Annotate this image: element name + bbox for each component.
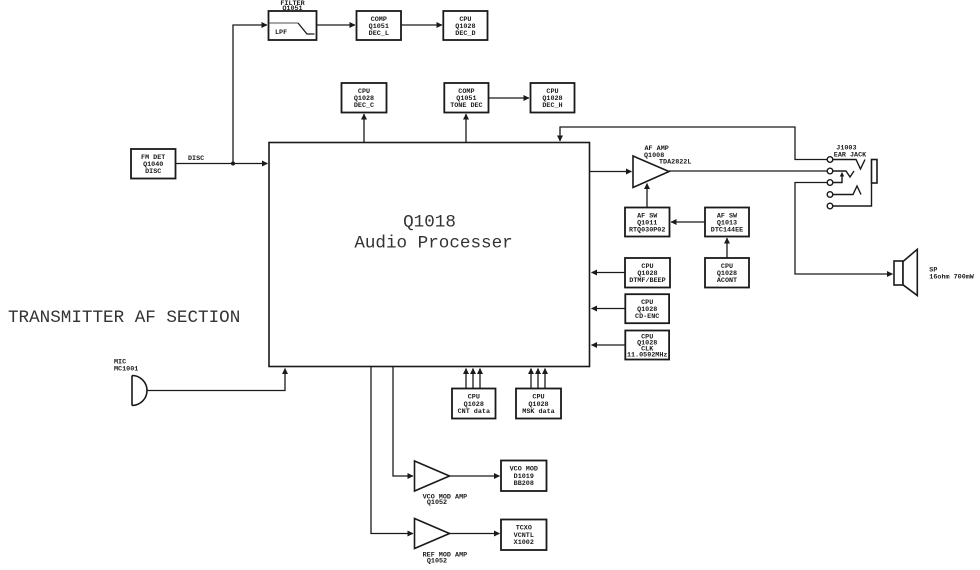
svg-text:DEC_L: DEC_L xyxy=(369,30,389,38)
wire block right to AF AMP input xyxy=(590,171,632,173)
svg-text:Audio Processer: Audio Processer xyxy=(354,234,512,254)
wire AF SW Q1013 to AF SW Q1011 xyxy=(671,221,705,223)
switch AF SW Q1011 RTQ030P02 xyxy=(625,208,670,237)
svg-text:DTC144EE: DTC144EE xyxy=(711,227,743,235)
wire CPU MSK data bus arrow 1 xyxy=(530,369,532,389)
node DISC junction dot xyxy=(231,162,235,166)
pin 2 circle xyxy=(827,168,833,174)
wire REF MOD AMP to TCXO box xyxy=(450,533,500,535)
cpu Q1028 CLK 11.0592MHz xyxy=(625,331,669,360)
svg-text:DEC_D: DEC_D xyxy=(455,30,475,38)
cpu Q1028 DEC_D xyxy=(443,11,487,40)
pin 2 contact v xyxy=(833,171,854,177)
speaker SP 16ohm 700mW xyxy=(894,249,975,295)
svg-text:MSK data: MSK data xyxy=(522,408,554,416)
wire CPU CD-ENC to block right xyxy=(592,308,626,310)
pin 5 sleeve wire xyxy=(833,183,872,206)
svg-text:DISC: DISC xyxy=(188,155,204,163)
wire CPU DTMF/BEEP to block right xyxy=(592,272,626,274)
comparator COMP Q1051 TONE DEC xyxy=(444,83,488,113)
wire CPU CNT data bus arrow 3 xyxy=(479,369,481,389)
wire CPU CLK to block right xyxy=(592,344,626,346)
svg-text:DISC: DISC xyxy=(145,168,161,176)
pin 1 contact V xyxy=(833,160,865,170)
svg-text:MC1001: MC1001 xyxy=(114,366,138,374)
filter Q1051 LPF xyxy=(269,0,317,40)
detector FM DET Q1040 DISC xyxy=(131,149,176,179)
pin 5 circle xyxy=(827,203,833,209)
varactor VCO MOD D1019 BB208 xyxy=(501,461,547,492)
svg-text:EAR JACK: EAR JACK xyxy=(834,151,867,159)
svg-text:X1002: X1002 xyxy=(514,539,534,547)
cpu Q1028 ACONT xyxy=(705,258,749,288)
cpu Q1028 CNT data xyxy=(452,389,496,419)
wire CPU MSK data bus arrow 3 xyxy=(544,369,546,389)
svg-text:RTQ030P02: RTQ030P02 xyxy=(629,227,665,235)
pin 1 circle xyxy=(827,157,833,163)
svg-text:DTMF/BEEP: DTMF/BEEP xyxy=(629,277,665,285)
wire microphone to block bottom xyxy=(148,369,286,391)
wire block top to COMP TONE DEC xyxy=(465,114,467,143)
switch AF SW Q1013 DTC144EE xyxy=(705,208,749,237)
svg-text:11.0592MHz: 11.0592MHz xyxy=(627,351,668,359)
connector J1003 EAR JACK xyxy=(827,145,877,209)
svg-text:TRANSMITTER AF SECTION: TRANSMITTER AF SECTION xyxy=(8,308,240,328)
svg-text:16ohm 700mW: 16ohm 700mW xyxy=(929,274,975,282)
wire AF AMP output to ear jack contact 2 xyxy=(669,170,827,172)
op-amp VCO MOD AMP Q1052 xyxy=(415,461,468,507)
svg-text:Q1052: Q1052 xyxy=(427,557,447,565)
op-amp AF AMP Q1008 TDA2822L xyxy=(633,145,691,188)
wire ear jack contact 1 to block top (detect) xyxy=(560,127,827,160)
svg-text:DEC_C: DEC_C xyxy=(354,102,374,110)
svg-text:TDA2822L: TDA2822L xyxy=(659,158,691,166)
wire block top to CPU DEC_C xyxy=(363,114,365,143)
wire LPF to COMP DEC_L xyxy=(317,24,356,26)
wire CPU MSK data bus arrow 2 xyxy=(537,369,539,389)
cpu Q1028 CD-ENC xyxy=(625,294,669,323)
svg-text:CD-ENC: CD-ENC xyxy=(635,313,659,321)
cpu Q1028 DEC_H xyxy=(531,83,575,113)
svg-text:DEC_H: DEC_H xyxy=(542,102,562,110)
svg-text:TONE DEC: TONE DEC xyxy=(450,102,482,110)
svg-text:LPF: LPF xyxy=(275,29,287,37)
svg-text:BB208: BB208 xyxy=(514,480,534,488)
wire AF SW Q1011 to AF AMP bottom xyxy=(646,184,648,208)
wire junction up to LPF filter input xyxy=(233,25,267,164)
wire CPU CNT data bus arrow 2 xyxy=(472,369,474,389)
wire VCO MOD AMP to VCO MOD box xyxy=(450,475,500,477)
wire block bottom to VCO MOD AMP xyxy=(393,367,413,476)
wire CPU CNT data bus arrow 1 xyxy=(465,369,467,389)
wire ear jack contact 3 to speaker xyxy=(795,183,893,275)
pin 3 arm to pin 2 arrow xyxy=(833,176,842,183)
svg-text:ACONT: ACONT xyxy=(717,277,737,285)
microphone MIC MC1001 xyxy=(114,359,147,406)
jack sleeve rectangle xyxy=(872,160,878,184)
pin 3 circle xyxy=(827,180,833,186)
cpu Q1028 MSK data xyxy=(516,389,561,419)
ic U-main Q1018 Audio Processer block xyxy=(269,143,590,367)
op-amp REF MOD AMP Q1052 xyxy=(415,519,468,566)
comparator COMP Q1051 DEC_L xyxy=(357,11,402,40)
svg-text:Q1052: Q1052 xyxy=(427,499,447,507)
svg-text:CNT data: CNT data xyxy=(458,408,490,416)
wire TONE DEC to CPU DEC_H xyxy=(489,97,530,99)
svg-text:Q1018: Q1018 xyxy=(403,213,456,233)
svg-text:Q1051: Q1051 xyxy=(282,5,302,13)
wire DISC: FM DET to audio processor xyxy=(176,163,268,165)
oscillator TCXO VCNTL X1002 xyxy=(501,520,547,551)
wire CPU ACONT to AF SW Q1013 xyxy=(726,238,728,258)
pin 4 circle xyxy=(827,192,833,198)
cpu Q1028 DEC_C xyxy=(342,83,387,113)
wire block bottom to REF MOD AMP xyxy=(371,367,413,534)
wire COMP DEC_L to CPU DEC_D xyxy=(401,24,442,26)
pin 4 contact inverted V xyxy=(833,186,861,195)
cpu Q1028 DTMF/BEEP xyxy=(625,258,670,288)
